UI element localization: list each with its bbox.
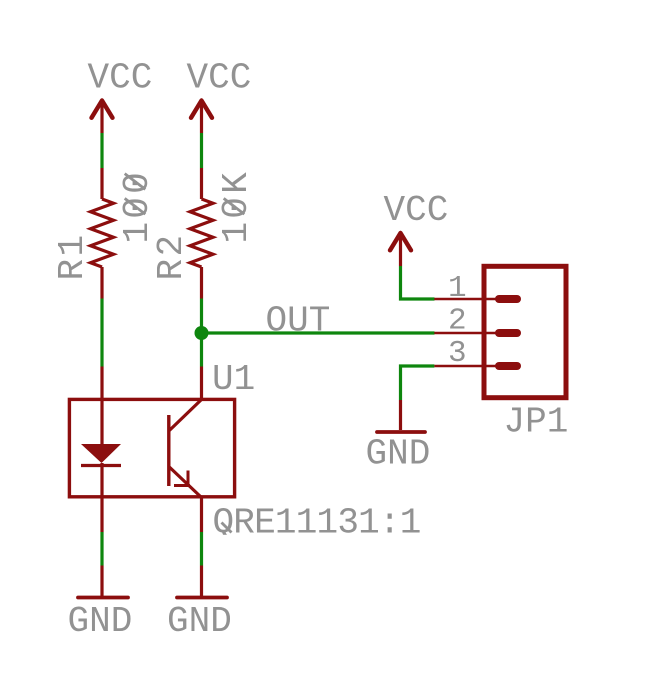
VCC symbol pin [200, 100, 203, 134]
R1 pin 1 [100, 168, 103, 199]
phototransistor (inside U1) [169, 400, 202, 498]
svg-text:10K: 10K [216, 169, 257, 243]
wire (net VCC to JP1 pin 1) [401, 266, 435, 299]
ground GND (left) [78, 596, 128, 600]
emitter stroke [169, 467, 202, 498]
JP1 pin 1 [434, 271, 517, 306]
wire (U1 cathode to GND) [100, 532, 103, 566]
svg-text:QRE11131:1: QRE11131:1 [213, 503, 421, 544]
U1 emitter pin wire [200, 498, 203, 533]
value 10K [216, 169, 257, 243]
label R1 [52, 232, 93, 280]
supply symbol VCC (above R1) [88, 58, 153, 134]
wire (R2 pin 2 to junction) [200, 299, 203, 334]
wire (junction to U1 collector) [200, 333, 203, 367]
ground GND (middle) [177, 596, 227, 600]
svg-text:100: 100 [117, 169, 158, 243]
svg-text:R2: R2 [151, 232, 192, 280]
svg-text:VCC: VCC [187, 58, 252, 99]
U1 cathode pin wire [100, 463, 103, 532]
resistor R2 [190, 168, 213, 299]
optocoupler U1 body [69, 399, 234, 496]
GND symbol pin (left) [100, 566, 103, 597]
resistor R1 [91, 168, 114, 299]
supply symbol VCC (above R2) [187, 58, 252, 134]
wire net OUT (junction to JP1 pin 2) [202, 331, 435, 334]
wire (U1 emitter to GND) [200, 532, 203, 566]
JP1 pin 2 [434, 304, 517, 339]
svg-text:GND: GND [167, 601, 232, 642]
R1 pin 2 [100, 267, 103, 299]
collector stroke [169, 400, 202, 432]
svg-text:GND: GND [68, 601, 133, 642]
wire (R1 pin 2 to U1 anode) [100, 299, 103, 367]
JP1 pin 3 [434, 336, 517, 371]
R1 zigzag body [91, 199, 114, 267]
emitter arrow [187, 471, 190, 487]
GND symbol pin (middle) [200, 566, 203, 597]
svg-text:GND: GND [366, 434, 431, 475]
VCC arrow head [390, 233, 411, 250]
value 100 [117, 169, 158, 243]
svg-text:2: 2 [448, 304, 467, 339]
svg-text:VCC: VCC [384, 190, 449, 231]
R2 zigzag body [190, 199, 213, 267]
connector JP1 body [484, 266, 566, 397]
ground GND (right) [377, 430, 425, 434]
svg-text:VCC: VCC [88, 58, 153, 99]
wire (net GND to JP1 pin 3) [401, 366, 435, 400]
svg-text:JP1: JP1 [504, 402, 569, 443]
svg-text:R1: R1 [52, 232, 93, 280]
GND symbol pin (right) [399, 400, 402, 430]
svg-text:3: 3 [448, 336, 467, 371]
svg-text:U1: U1 [212, 359, 255, 400]
VCC symbol pin [100, 100, 103, 134]
VCC symbol pin [399, 232, 402, 267]
U1 collector pin wire [200, 367, 203, 400]
base bar [167, 415, 170, 486]
R2 pin 1 [200, 168, 203, 199]
VCC arrow head [191, 101, 212, 118]
svg-text:OUT: OUT [266, 301, 331, 342]
junction (node OUT) [195, 326, 209, 340]
svg-text:1: 1 [448, 271, 467, 306]
label R2 [151, 232, 192, 280]
wire (net VCC to R2 pin 1) [200, 133, 203, 168]
wire (net VCC to R1 pin 1) [100, 133, 103, 168]
LED anode triangle (inside U1) [81, 444, 121, 463]
U1 anode pin wire [100, 367, 103, 445]
VCC arrow head [92, 101, 113, 118]
R2 pin 2 [200, 267, 203, 299]
supply symbol VCC (above JP1 pin 1) [384, 190, 449, 266]
LED cathode bar [81, 464, 121, 467]
